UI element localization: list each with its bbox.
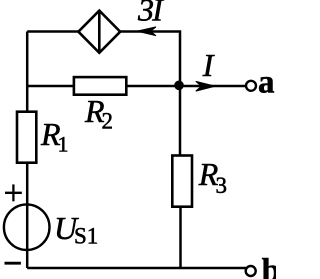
- svg-text:3: 3: [216, 173, 228, 198]
- svg-text:b: b: [262, 253, 276, 279]
- svg-text:S1: S1: [74, 224, 98, 249]
- svg-text:I: I: [151, 0, 164, 28]
- svg-text:1: 1: [58, 132, 69, 157]
- svg-text:I: I: [202, 47, 215, 83]
- svg-text:2: 2: [102, 109, 114, 134]
- svg-text:a: a: [258, 65, 275, 101]
